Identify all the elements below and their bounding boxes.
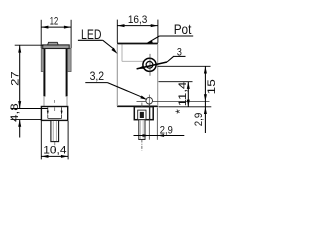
svg-text:11,4: 11,4: [177, 82, 189, 107]
threaded stud side view: [139, 120, 145, 140]
svg-text:3,2: 3,2: [90, 70, 105, 83]
LED window: [137, 95, 210, 107]
dimension 4,8: [9, 103, 48, 137]
label 3,2: [85, 70, 147, 100]
dimension 27: [9, 45, 43, 108]
label LED: [78, 27, 118, 54]
dimension 2,9 right: [193, 107, 207, 126]
svg-text:27: 27: [9, 71, 21, 86]
threaded stud front view: [51, 120, 59, 151]
svg-text:4,8: 4,8: [9, 103, 21, 122]
top cap: [43, 45, 69, 49]
side view body: [117, 44, 158, 107]
dimension 10,4: [41, 121, 68, 159]
potentiometer: [137, 54, 174, 76]
mounting clip left: [41, 48, 44, 71]
svg-text:2,9: 2,9: [160, 125, 173, 137]
connector collar side view: [134, 103, 153, 120]
svg-text:LED: LED: [81, 27, 102, 42]
dimension 2,9 bottom: [134, 104, 185, 140]
svg-text:*: *: [173, 109, 187, 114]
front view body: [43, 48, 67, 107]
svg-text:16,3: 16,3: [128, 14, 148, 26]
housing step lines side view: [122, 45, 144, 62]
svg-text:2,9: 2,9: [193, 113, 205, 127]
dimension 11,4: [159, 82, 193, 114]
mounting clip right: [68, 48, 72, 71]
label Pot: [146, 21, 194, 44]
centerline below stud: [141, 140, 143, 151]
connector collar front view: [41, 107, 67, 121]
centerline tick front view: [54, 100, 56, 103]
svg-text:15: 15: [206, 79, 217, 94]
dimension 15: [158, 66, 218, 133]
top button bump: [48, 42, 59, 45]
dimension 12: [41, 16, 71, 48]
svg-text:12: 12: [50, 16, 58, 28]
svg-text:10,4: 10,4: [43, 145, 66, 157]
svg-text:Pot: Pot: [174, 21, 192, 37]
dimension 16,3: [117, 14, 158, 43]
label 3: [173, 46, 186, 58]
